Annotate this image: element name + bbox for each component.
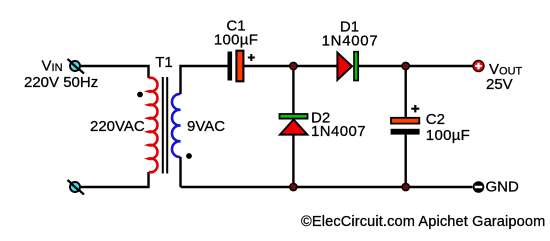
transformer T1 secondary winding 9VAC (blue coil)	[172, 94, 181, 157]
diode D1 cathode bar (green)	[354, 52, 358, 81]
capacitor C2 positive plate (orange)	[391, 118, 419, 124]
svg-text:VIN: VIN	[42, 58, 63, 75]
phase dot primary	[137, 92, 143, 98]
transformer core bar left	[162, 77, 164, 174]
svg-text:1N4007: 1N4007	[311, 123, 366, 140]
terminal VIN bottom (cyan)	[68, 180, 85, 195]
wire: D1 to node B and on to VOUT	[359, 65, 473, 67]
diode D2 anode triangle	[280, 120, 307, 135]
C1 plus sign	[248, 54, 255, 61]
wire: node A down to D2	[292, 66, 294, 114]
wire: ground rail from secondary to GND terminal	[181, 186, 473, 188]
wire: node B down to C2	[405, 66, 407, 118]
terminal VOUT (red plus)	[473, 60, 484, 71]
wire: C2 down to ground rail	[405, 135, 407, 187]
transformer core bar right	[166, 77, 168, 174]
wire: VIN top terminal to transformer primary top	[81, 66, 149, 78]
terminal VIN top (cyan)	[68, 59, 85, 74]
capacitor C1 positive plate (orange)	[236, 51, 243, 82]
phase dot secondary	[186, 153, 192, 159]
svg-text:25V: 25V	[486, 76, 513, 93]
svg-text:9VAC: 9VAC	[187, 118, 225, 135]
svg-text:100µF: 100µF	[214, 32, 258, 49]
node: C2 ground junction dot	[402, 183, 409, 190]
node A junction dot	[290, 62, 297, 69]
wire: secondary bottom down to ground rail	[179, 157, 181, 187]
node B junction dot	[402, 62, 409, 69]
svg-text:©ElecCircuit.com Apichet Garai: ©ElecCircuit.com Apichet Garaipoom	[301, 214, 545, 230]
C2 plus sign	[411, 105, 419, 112]
transformer T1 primary winding 220VAC (red coil)	[149, 78, 158, 173]
wire: transformer primary bottom to VIN bottom terminal	[81, 172, 149, 187]
svg-text:C2: C2	[426, 111, 445, 128]
svg-text:T1: T1	[155, 54, 173, 71]
terminal GND (black minus)	[473, 181, 485, 193]
wire: secondary top up and right to C1	[181, 66, 228, 94]
diode D2 cathode bar (green)	[280, 114, 308, 119]
svg-text:220V 50Hz: 220V 50Hz	[24, 74, 98, 91]
svg-text:1N4007: 1N4007	[322, 33, 379, 50]
svg-text:GND: GND	[486, 179, 520, 196]
wire: C1 to node A and on to D1	[244, 65, 339, 67]
capacitor C2 negative plate	[391, 129, 420, 135]
capacitor C1 negative plate	[228, 52, 233, 81]
wire: D2 down to ground rail	[292, 135, 294, 187]
svg-text:220VAC: 220VAC	[90, 118, 145, 135]
svg-text:100µF: 100µF	[426, 127, 470, 144]
diode D1 anode triangle	[337, 53, 352, 80]
node: D2 ground junction dot	[290, 183, 297, 190]
